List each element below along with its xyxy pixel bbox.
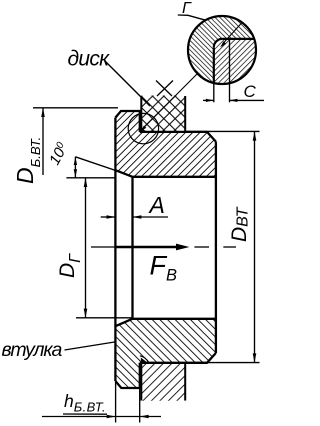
svg-text:FВ: FВ (150, 251, 178, 285)
center line dash right (223, 246, 236, 248)
arrow Dg up (84, 178, 88, 187)
bushing bottom bore line with bevel (115, 319, 215, 326)
arrow D vt down (253, 353, 257, 362)
dimension D b.vt. line (42, 108, 44, 175)
dimension A right tail (133, 216, 169, 218)
10 deg angle dimension line (74, 157, 76, 178)
svg-text:DБ.ВТ.: DБ.ВТ. (12, 137, 43, 184)
bushing right end face (215, 142, 217, 353)
dimension A left tail (101, 216, 116, 218)
detail callout circle at top corner (128, 113, 158, 143)
bushing collar bottom face and chamfer (115, 363, 139, 388)
arrow h right (140, 415, 149, 418)
disc lower left edge (140, 363, 142, 401)
detail view Г disc region hatch (214, 39, 256, 84)
svg-text:диск: диск (68, 48, 111, 71)
h b.vt. label underline (63, 413, 107, 415)
svg-text:втулка: втулка (2, 339, 63, 361)
dimension C right extension line (229, 39, 231, 102)
dimension D vt line (254, 131, 256, 362)
bushing bottom seat surface and chamfer (140, 353, 216, 363)
detail view Г bushing region hatch (188, 16, 256, 84)
dimension D vt top extension line (185, 130, 259, 132)
svg-text:DГ: DГ (56, 253, 84, 278)
svg-text:C: C (244, 82, 257, 101)
bushing top seat surface and chamfer (140, 132, 216, 142)
dimension C right tail (230, 99, 265, 101)
bushing lower flange section hatch (115, 319, 215, 388)
center line dash left (91, 246, 115, 248)
dimension Dg line (85, 178, 87, 318)
svg-text:hБ.ВТ.: hБ.ВТ. (64, 391, 106, 415)
svg-text:Г: Г (182, 0, 192, 17)
arrow D b.vt. up (41, 108, 45, 117)
dimension Dg top extension line (66, 177, 115, 179)
disc upper section cross-hatch (141, 81, 185, 132)
bushing upper flange section hatch (115, 111, 215, 177)
10 deg angle reference incline (75, 157, 119, 172)
svg-text:A: A (148, 192, 165, 218)
leader of label Г (178, 15, 206, 20)
bushing top bore line with 10 deg bevel (115, 170, 215, 177)
arrow D vt up (253, 131, 257, 140)
detail view Г circle outline (188, 16, 256, 84)
dimension C left extension line (213, 83, 215, 102)
bottom corner fillet wedge (140, 356, 149, 363)
detail fillet radius arc (214, 39, 222, 47)
leader of label disc (105, 61, 151, 107)
disc upper left edge (140, 96, 142, 132)
bushing collar top face and chamfer (115, 111, 139, 132)
dimension C left tail (203, 99, 214, 101)
arrow C left (206, 99, 214, 102)
top corner fillet wedge (140, 126, 146, 132)
arrow 10 deg down (74, 169, 77, 177)
leader from detail view to top corner (141, 74, 198, 131)
dimension h b.vt. left extension line (115, 382, 117, 423)
svg-text:100: 100 (46, 140, 72, 168)
dimension D b.vt. extension line (33, 107, 118, 109)
bushing left end face (114, 118, 116, 381)
bushing bevel edge circle (131, 177, 133, 319)
leader of label bushing (65, 342, 115, 350)
detail collar face line (213, 47, 215, 83)
arrow Dg down (84, 309, 88, 318)
dimension h b.vt. right extension line (139, 389, 141, 423)
arrow h left (107, 415, 116, 418)
disc upper right edge (184, 96, 186, 132)
detail seat surface line (222, 38, 254, 40)
dimension D vt bottom extension line (185, 362, 259, 364)
center line dash middle (194, 246, 209, 248)
dimension Dg bottom extension line (76, 317, 133, 319)
force Fv arrow (115, 244, 189, 251)
arrow A left (107, 215, 116, 218)
arrow A right (133, 215, 142, 218)
arrow C right (230, 99, 238, 102)
dimension h b.vt. line (42, 416, 161, 418)
disc lower right edge (184, 363, 186, 401)
svg-text:DВТ: DВТ (228, 206, 252, 242)
disc lower section hatch (141, 363, 185, 401)
arrow 10 deg up (74, 157, 77, 165)
fillet radius leader in detail view (220, 23, 242, 48)
